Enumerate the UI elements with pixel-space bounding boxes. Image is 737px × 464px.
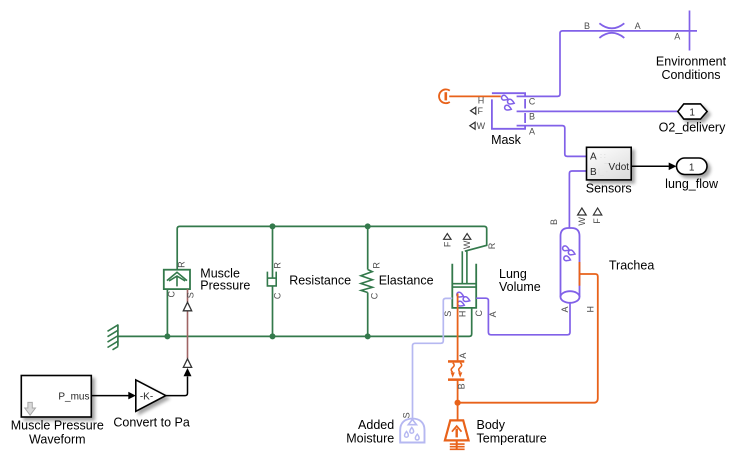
body temperature block <box>445 420 469 449</box>
ground <box>117 325 119 346</box>
svg-text:A: A <box>458 353 468 359</box>
svg-text:B: B <box>584 21 590 31</box>
svg-text:W: W <box>477 121 486 131</box>
svg-text:C: C <box>529 97 536 107</box>
junction dots green <box>164 223 370 339</box>
wire: cap to Mask H <box>449 95 501 97</box>
svg-text:: :: : : <box>600 153 606 160</box>
svg-text:A: A <box>560 306 570 312</box>
wire: Lung Volume H down to convective exchanger <box>457 294 459 361</box>
svg-text:A: A <box>674 32 680 42</box>
svg-text:B: B <box>590 167 597 178</box>
wire: Trachea H down and to junction <box>579 262 581 286</box>
svg-text:Muscle Pressure: Muscle Pressure <box>11 419 104 433</box>
wire: Mask A to Sensors A <box>517 126 587 157</box>
arrowhead into gain <box>128 392 136 400</box>
svg-text:A: A <box>635 21 641 31</box>
wire: sensors to lung_flow <box>631 165 669 167</box>
wire: env conditions horizontal + down to Mask C <box>517 31 697 97</box>
svg-text:Lung: Lung <box>499 267 527 281</box>
svg-text:Temperature: Temperature <box>477 432 547 446</box>
svg-text:B: B <box>529 112 535 122</box>
node: thermal junction <box>455 400 461 406</box>
PS port triangle lower <box>183 359 191 368</box>
svg-text:Moisture: Moisture <box>346 432 394 446</box>
resistor wire top <box>272 226 274 278</box>
node: MP C-bus <box>164 333 170 339</box>
venturi arcs on env line <box>599 23 624 28</box>
svg-text:Trachea: Trachea <box>609 258 654 272</box>
environment conditions reference (vertical bar) <box>689 11 691 51</box>
flask droplets <box>404 428 419 440</box>
mask W port triangle <box>470 122 475 129</box>
sensors block <box>587 147 632 180</box>
wire: gain up to PS converter <box>166 376 188 395</box>
convective heat exchanger <box>448 360 464 381</box>
svg-text:Conditions: Conditions <box>661 68 720 82</box>
elastance wire top <box>367 226 369 269</box>
lung volume droplets <box>456 292 470 308</box>
svg-text:Resistance: Resistance <box>289 274 351 288</box>
wire: Lung Volume S to Added Moisture <box>413 298 453 419</box>
svg-text:1: 1 <box>689 162 695 173</box>
wire: waveform to gain <box>91 395 128 397</box>
wire: Muscle Pressure C to bus <box>166 289 168 336</box>
gain block Convert to Pa <box>136 380 166 411</box>
mask F port triangle <box>471 107 476 114</box>
svg-text:B: B <box>456 383 466 389</box>
elastance spring <box>361 270 373 293</box>
mask block <box>492 93 525 129</box>
trachea F port triangle <box>593 208 601 215</box>
outport lung_flow <box>677 158 708 175</box>
svg-text:A: A <box>590 152 597 163</box>
mask droplets <box>501 95 515 111</box>
svg-text:H: H <box>585 306 595 313</box>
resistor wire bottom <box>272 286 274 337</box>
svg-text:R: R <box>372 262 382 269</box>
svg-text:A: A <box>488 311 498 317</box>
wire: top bus from Muscle Pressure R to Lung Volume R <box>177 226 487 269</box>
thermal reference under body temperature <box>456 440 458 449</box>
lung volume F port triangle <box>444 234 451 240</box>
muscle pressure waveform block <box>21 376 91 418</box>
waveform block icon arrow <box>25 402 36 415</box>
trachea W port triangle <box>578 208 587 215</box>
svg-text:A: A <box>529 126 535 136</box>
svg-text:lung_flow: lung_flow <box>665 177 719 191</box>
svg-text:F: F <box>442 241 452 247</box>
svg-text:Elastance: Elastance <box>379 274 434 288</box>
wire: bottom bus from ground to Lung Volume C <box>118 308 472 337</box>
svg-text:P_mus: P_mus <box>58 392 89 403</box>
cap symbol left of mask <box>439 89 450 103</box>
svg-text:Convert to Pa: Convert to Pa <box>113 416 189 430</box>
svg-text:1: 1 <box>689 108 695 119</box>
svg-text:Added: Added <box>358 418 394 432</box>
svg-text:S: S <box>443 311 453 317</box>
node: elastance-top <box>365 223 371 229</box>
svg-text:|_ -: |_ - <box>598 169 609 176</box>
added moisture block (flask) <box>400 419 424 443</box>
svg-text:Sensors: Sensors <box>586 182 632 196</box>
node: resistance-bottom <box>270 333 276 339</box>
piston rod <box>462 251 467 283</box>
svg-text:S: S <box>401 412 411 418</box>
svg-text:R: R <box>272 262 282 269</box>
svg-text:C: C <box>474 310 484 317</box>
node: elastance-bottom <box>365 333 371 339</box>
wire: exchanger to junction to Body Temperature <box>457 381 459 421</box>
svg-text:C: C <box>273 292 283 299</box>
svg-text:Volume: Volume <box>499 280 541 294</box>
svg-text:R: R <box>487 242 497 249</box>
svg-text:Vdot: Vdot <box>609 162 630 173</box>
PS port triangle upper <box>183 302 191 311</box>
wire: Sensors B to Trachea B <box>569 171 586 229</box>
svg-text:-K-: -K- <box>140 391 153 402</box>
cylinder walls <box>452 264 476 308</box>
svg-text:H: H <box>458 311 468 318</box>
svg-text:Pressure: Pressure <box>200 279 250 293</box>
connection port O2_delivery (hexagon) <box>678 104 707 119</box>
svg-text:W: W <box>462 240 472 249</box>
svg-text:C: C <box>167 291 177 298</box>
piston plate <box>452 284 476 287</box>
svg-text:Environment: Environment <box>656 55 727 69</box>
svg-text:S: S <box>185 292 195 298</box>
muscle pressure block <box>164 270 190 289</box>
svg-text:O2_delivery: O2_delivery <box>659 121 726 135</box>
svg-text:Waveform: Waveform <box>29 433 86 447</box>
svg-text:B: B <box>549 219 559 225</box>
svg-text:F: F <box>592 218 602 224</box>
arrowhead up into PS triangle <box>184 368 192 376</box>
lung volume block (green cylinder+piston) <box>452 251 476 308</box>
svg-text:Mask: Mask <box>491 133 522 147</box>
svg-text:H: H <box>478 95 485 105</box>
trachea block (purple cylinder) <box>561 228 580 303</box>
svg-text:W: W <box>577 217 587 226</box>
wire: Mask B to O2_delivery <box>517 110 678 112</box>
svg-text:C: C <box>369 292 379 299</box>
node: resistance-top <box>270 223 276 229</box>
resistor (damper) symbol <box>267 272 276 286</box>
arrowhead into lung_flow <box>669 163 677 171</box>
svg-text:R: R <box>176 261 186 268</box>
svg-text:F: F <box>478 106 484 116</box>
wire: Trachea A to Lung Volume A <box>476 298 570 335</box>
trachea droplets <box>562 245 576 262</box>
lung volume W port triangle <box>463 234 470 240</box>
elastance wire bottom <box>367 293 369 337</box>
svg-text:Body: Body <box>477 418 506 432</box>
